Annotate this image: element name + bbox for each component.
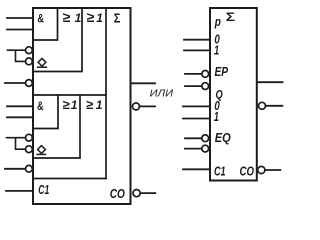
svg-text:&: & — [37, 12, 44, 26]
inverter bubble D2 — [26, 146, 33, 153]
open-collector diamond 1 — [38, 58, 47, 67]
wire split input B — [8, 50, 26, 61]
wire input EQ1 — [185, 137, 202, 139]
wire split input D — [7, 138, 26, 150]
svg-text:≥1: ≥1 — [87, 9, 104, 25]
svg-text:1: 1 — [214, 110, 219, 124]
OR sub-block 1 boundary — [33, 8, 82, 72]
inverter bubble CO — [133, 190, 140, 197]
svg-text:EQ: EQ — [215, 130, 231, 145]
svg-text:ИЛИ: ИЛИ — [150, 89, 174, 100]
inverter bubble Sb — [259, 102, 266, 109]
section 2 top divider — [33, 94, 106, 96]
wire output Sb — [266, 105, 283, 107]
wire output S1 — [131, 82, 156, 84]
inverter bubble EP1 — [202, 71, 209, 78]
svg-text:C1: C1 — [214, 163, 226, 178]
inverter bubble C — [26, 80, 33, 87]
inverter bubble EP2 — [202, 83, 209, 90]
wire input C1 — [6, 190, 33, 192]
svg-text:≥1: ≥1 — [86, 97, 103, 112]
svg-text:CO: CO — [240, 163, 255, 178]
svg-text:CO: CO — [110, 187, 125, 201]
carry strip divider — [33, 178, 106, 180]
sum column divider — [105, 8, 107, 179]
wire output S2 — [140, 105, 156, 107]
svg-text:p: p — [214, 14, 221, 29]
wire input E — [5, 168, 26, 170]
inverter bubble COb — [258, 166, 265, 173]
inverter bubble B1 — [26, 47, 33, 54]
svg-text:Σ: Σ — [114, 11, 121, 25]
wire input 1a — [184, 49, 210, 51]
svg-text:EP: EP — [215, 64, 229, 79]
wire input EP2 — [185, 85, 202, 87]
wire input EP1 — [185, 73, 202, 75]
wire input C1b — [183, 168, 210, 170]
inverter bubble EQ1 — [202, 135, 209, 142]
inverter bubble EQ2 — [202, 145, 209, 152]
inverter bubble B2 — [26, 58, 33, 65]
open-collector diamond 2 — [37, 146, 45, 155]
wire input 0b — [183, 105, 210, 107]
AND sub-block 1 — [33, 8, 58, 40]
inverter bubble D1 — [26, 134, 33, 141]
svg-text:&: & — [37, 99, 44, 113]
wire input A1 — [7, 17, 33, 19]
wire output CO — [140, 192, 155, 194]
inverter bubble S2 — [133, 103, 140, 110]
inverter bubble E — [26, 165, 33, 172]
wire input C — [5, 82, 26, 84]
wire input EQ2 — [185, 148, 202, 150]
adder element DD1 outline — [33, 8, 131, 204]
wire input A2 — [7, 29, 33, 31]
svg-text:≥1: ≥1 — [63, 9, 82, 25]
svg-text:≥1: ≥1 — [63, 97, 78, 112]
svg-text:Σ: Σ — [226, 10, 235, 24]
wire input 0a — [184, 39, 210, 41]
wire output COb — [265, 169, 280, 171]
OR sub-block 2 boundary — [33, 95, 80, 158]
wire input A4 — [7, 116, 33, 118]
AND sub-block 2 — [33, 95, 58, 129]
wire output Pb — [257, 81, 283, 83]
svg-text:C1: C1 — [38, 183, 49, 197]
wire input A3 — [7, 105, 33, 107]
wire input 1b — [183, 118, 210, 120]
register element DD2 outline — [210, 8, 257, 181]
svg-text:1: 1 — [214, 44, 219, 58]
